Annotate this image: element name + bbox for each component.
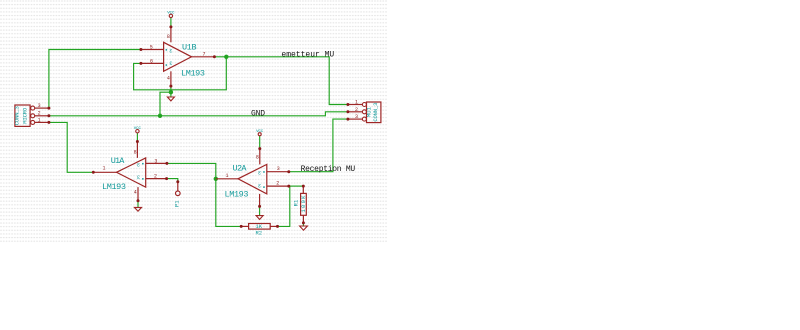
wire net MICRO.1 to U1A output bbox=[49, 122, 93, 172]
value LM193 of U2A bbox=[225, 190, 249, 200]
svg-text:100K: 100K bbox=[300, 195, 307, 213]
pin number 1 of MU1 bbox=[355, 100, 358, 106]
value 1K of R2 bbox=[255, 223, 262, 230]
svg-text:U1A: U1A bbox=[111, 156, 125, 166]
svg-text:P1: P1 bbox=[174, 200, 181, 207]
reference R2 bbox=[255, 229, 262, 236]
junction U1B pin4 / feedback crossing bbox=[169, 90, 173, 94]
value LM193 of U1A bbox=[102, 182, 126, 192]
reference U2A bbox=[233, 163, 248, 173]
power VCC above U1A bbox=[134, 126, 142, 133]
svg-text:3: 3 bbox=[355, 114, 358, 120]
pin number 2 of MU1 bbox=[355, 107, 358, 113]
wire net MICRO.3 to U1B + input bbox=[49, 50, 141, 109]
reference U1A bbox=[111, 156, 125, 166]
op-amp U2A bbox=[216, 147, 290, 208]
svg-text:3: 3 bbox=[258, 171, 261, 177]
svg-text:R1: R1 bbox=[292, 199, 299, 206]
wire U1B pin4 tee to GND net bbox=[160, 92, 171, 116]
svg-text:3: 3 bbox=[169, 49, 172, 55]
svg-text:1: 1 bbox=[355, 100, 358, 106]
pin number 8 of U2A bbox=[256, 154, 259, 160]
ground below R1 bbox=[300, 226, 308, 230]
connector P1 bbox=[176, 180, 181, 195]
wire U2A pin4 to ground bbox=[259, 206, 261, 215]
reference U1B bbox=[182, 42, 197, 52]
junction U1B output node bbox=[224, 55, 228, 59]
value LM193 of U1B bbox=[181, 68, 205, 78]
junction U2A output node bbox=[214, 177, 218, 181]
pin number 3 of MU1 bbox=[355, 114, 358, 120]
wire GND net from MICRO.2 to MU1.2 bbox=[49, 112, 348, 116]
pin number 1 of U2A bbox=[225, 173, 228, 179]
svg-text:2: 2 bbox=[276, 180, 279, 186]
svg-text:R2: R2 bbox=[255, 229, 262, 236]
pin number 2 of U1A bbox=[154, 174, 157, 180]
connector MICRO CONN_3 bbox=[15, 105, 51, 126]
connector MU1 CONN_3 bbox=[346, 102, 381, 123]
wire U2A - input down to R2 right bbox=[278, 186, 290, 226]
wire U1B pin4 to ground bbox=[170, 86, 172, 97]
svg-text:Reception MU: Reception MU bbox=[301, 165, 356, 174]
wire U2A - input to R1 top bbox=[289, 185, 304, 187]
wire net emetteur MU: U1B output to MU1.1 bbox=[214, 57, 348, 105]
net label emetteur MU bbox=[281, 50, 334, 59]
svg-text:MICRO: MICRO bbox=[22, 107, 29, 124]
power VCC above U1B bbox=[167, 11, 175, 18]
svg-text:1: 1 bbox=[38, 118, 41, 124]
wire VCC stub to U1A pin8 bbox=[136, 133, 138, 142]
wire R1 bottom to ground bbox=[302, 223, 304, 226]
pin number 3 of U2A bbox=[277, 166, 280, 172]
svg-text:8: 8 bbox=[134, 150, 137, 156]
svg-text:3: 3 bbox=[169, 61, 172, 67]
svg-text:LM193: LM193 bbox=[102, 182, 126, 192]
svg-text:LM193: LM193 bbox=[225, 190, 249, 200]
value 100K of R1 bbox=[300, 195, 307, 213]
ground below U2A pin4 bbox=[256, 216, 263, 220]
svg-text:U1B: U1B bbox=[182, 42, 197, 52]
svg-text:CONN_3: CONN_3 bbox=[372, 103, 379, 122]
wire net U1A + input to R2 left bbox=[167, 163, 241, 226]
resistor R2 bbox=[240, 224, 279, 230]
pin number 1 of MICRO bbox=[38, 118, 41, 124]
svg-text:3: 3 bbox=[137, 175, 140, 181]
ground below U1B pin4 bbox=[167, 97, 174, 101]
svg-text:8: 8 bbox=[167, 34, 170, 40]
svg-text:2: 2 bbox=[154, 174, 157, 180]
pin number 8 of U1A bbox=[134, 150, 137, 156]
pin number 2 of MICRO bbox=[38, 111, 41, 117]
svg-text:1: 1 bbox=[102, 165, 105, 171]
svg-text:U2A: U2A bbox=[233, 163, 248, 173]
svg-text:CONN_3: CONN_3 bbox=[14, 106, 21, 125]
op-amp U1B bbox=[139, 25, 216, 87]
pin number 8 of U1B bbox=[167, 34, 170, 40]
reference MICRO bbox=[22, 107, 29, 124]
pin number 4 of U1A bbox=[134, 190, 137, 196]
svg-text:3: 3 bbox=[154, 159, 157, 165]
reference MU1 bbox=[366, 106, 373, 117]
wire U1A - input to P1 bbox=[167, 179, 178, 182]
wire net Reception MU: U2A + input to MU1.3 bbox=[289, 119, 348, 172]
svg-text:3: 3 bbox=[137, 162, 140, 168]
wire VCC stub to U2A pin8 bbox=[259, 136, 261, 148]
ground below U1A pin4 bbox=[134, 207, 141, 211]
value CONN_3 of MU1 bbox=[372, 103, 379, 122]
pin number 2 of U2A bbox=[276, 180, 279, 186]
wire VCC stub to U1B pin8 bbox=[170, 18, 172, 27]
pin number 3 of MICRO bbox=[38, 103, 41, 109]
svg-text:3: 3 bbox=[277, 166, 280, 172]
svg-text:4: 4 bbox=[167, 76, 170, 82]
svg-text:1: 1 bbox=[225, 173, 228, 179]
svg-text:3: 3 bbox=[258, 184, 261, 190]
op-amp U1A bbox=[92, 140, 169, 202]
svg-text:LM193: LM193 bbox=[181, 68, 205, 78]
svg-text:3: 3 bbox=[38, 103, 41, 109]
svg-text:7: 7 bbox=[202, 51, 205, 57]
pin number 3 of U1A bbox=[154, 159, 157, 165]
reference P1 bbox=[174, 200, 181, 207]
pin number 5 of U1B bbox=[150, 44, 153, 50]
pin number 4 of U1B bbox=[167, 76, 170, 82]
svg-text:2: 2 bbox=[38, 111, 41, 117]
svg-text:2: 2 bbox=[355, 107, 358, 113]
svg-text:GND: GND bbox=[251, 110, 265, 119]
wire U1A pin4 to ground bbox=[137, 201, 139, 208]
pin number 1 of U1A bbox=[102, 165, 105, 171]
resistor R1 bbox=[301, 185, 307, 225]
svg-text:emetteur MU: emetteur MU bbox=[281, 50, 334, 59]
pin number 7 of U1B bbox=[202, 51, 205, 57]
svg-text:4: 4 bbox=[134, 190, 137, 196]
net label GND bbox=[251, 110, 265, 119]
wire U1B feedback loop output to - input bbox=[134, 57, 227, 90]
svg-text:6: 6 bbox=[150, 59, 153, 65]
junction on GND net bbox=[158, 114, 162, 118]
reference R1 bbox=[292, 199, 299, 206]
svg-text:5: 5 bbox=[150, 44, 153, 50]
pin number 6 of U1B bbox=[150, 59, 153, 65]
power VCC above U2A bbox=[256, 129, 264, 136]
net label Reception MU bbox=[301, 165, 356, 174]
value CONN_3 of MICRO bbox=[14, 106, 21, 125]
svg-text:8: 8 bbox=[256, 154, 259, 160]
